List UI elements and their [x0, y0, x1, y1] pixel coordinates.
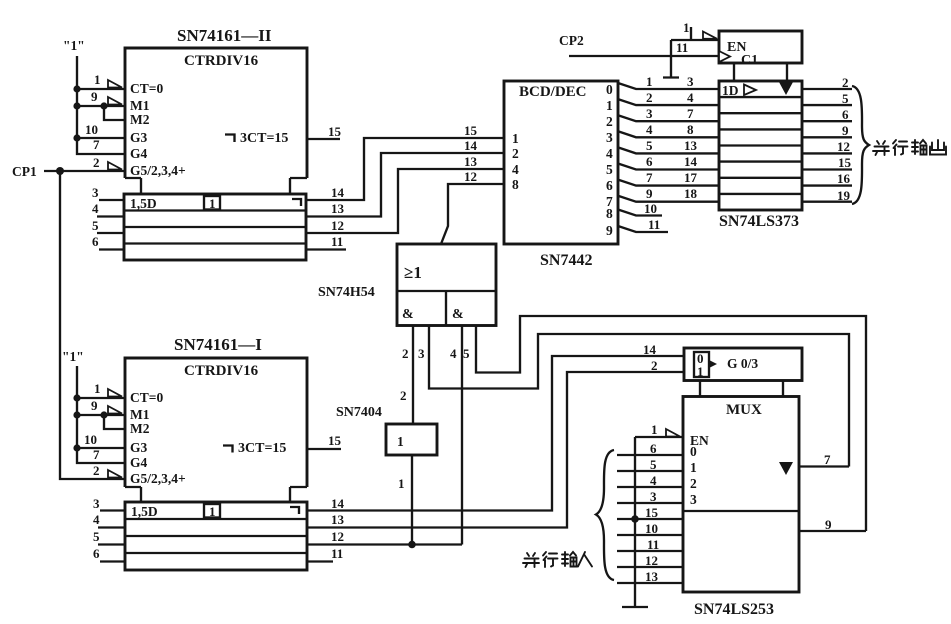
svg-text:8: 8: [606, 206, 613, 221]
svg-text:0: 0: [606, 82, 613, 97]
select brace pointer: [709, 360, 717, 368]
polarity triangle CT=0 lower: [108, 389, 122, 397]
counter U6 pin labels inside: [130, 390, 186, 486]
wire decoder out7 to latch D8 (pins 9-18): [618, 186, 719, 202]
wire lower QD pin11 stub: [307, 546, 343, 562]
wire pin9 M1 stub: [77, 89, 125, 106]
clock triangle G5 top counter: [108, 162, 122, 170]
junction rail-pin1 lower: [73, 394, 80, 401]
svg-text:12: 12: [331, 218, 344, 233]
latch U4 1D label: [722, 83, 739, 98]
svg-text:5: 5: [92, 218, 99, 233]
svg-text:0: 0: [690, 444, 697, 459]
svg-text:6: 6: [92, 234, 99, 249]
label parallel input (CJK): [523, 552, 592, 567]
svg-text:2: 2: [842, 75, 849, 90]
polarity triangle M1 lower: [108, 406, 122, 414]
svg-text:SN74LS373: SN74LS373: [719, 213, 799, 230]
mux U7 SN74LS253 outline: [683, 397, 799, 593]
mux U7 name label: [694, 601, 774, 618]
wire 7404 input pin1: [398, 455, 412, 545]
latch U4 EN/C1 control block: [719, 31, 802, 81]
gate U2 name label: [318, 285, 375, 300]
svg-text:7: 7: [824, 452, 831, 467]
counter U1 pin labels inside: [130, 81, 186, 178]
wire latch Q4 pin9: [802, 123, 852, 138]
svg-text:4: 4: [93, 512, 100, 527]
junction CP1 branch: [56, 167, 64, 175]
latch U4 name label: [719, 213, 799, 230]
svg-text:CT=0: CT=0: [130, 81, 163, 96]
wire D-input pin3 stub: [92, 185, 124, 200]
wire QC pin12 to 7442 input 4: [306, 154, 504, 233]
svg-text:8: 8: [512, 177, 519, 192]
mux U7 EN label: [690, 433, 709, 448]
svg-text:5: 5: [650, 457, 657, 472]
svg-text:8: 8: [687, 122, 694, 137]
wire decoder out3 to latch D4 (pins 4-8): [618, 122, 719, 137]
wire pin7 G4 number lower: [93, 447, 100, 462]
svg-text:6: 6: [646, 154, 653, 169]
clock wedge C1: [719, 51, 730, 62]
svg-text:2: 2: [93, 463, 100, 478]
wire latch pin11 enable segment: [671, 40, 719, 55]
wire QA pin14 to 7442 input 1: [306, 123, 504, 200]
wire D-input pin5 stub: [92, 218, 124, 233]
wire lower QC pin12 row: [307, 529, 462, 545]
wire CP1 drop to lower counter clock: [60, 171, 125, 479]
wire latch pin1 stub: [683, 20, 691, 40]
svg-text:14: 14: [643, 342, 657, 357]
wire pin1 CT=0 stub: [77, 72, 125, 89]
svg-text:14: 14: [684, 154, 698, 169]
svg-text:7: 7: [687, 106, 694, 121]
svg-text:&: &: [452, 307, 464, 322]
svg-text:15: 15: [838, 155, 852, 170]
polarity triangle MUX EN: [666, 429, 680, 437]
svg-text:16: 16: [837, 171, 851, 186]
svg-text:G 0/3: G 0/3: [727, 356, 758, 371]
svg-text:1,5D: 1,5D: [130, 196, 157, 211]
svg-text:M2: M2: [130, 421, 150, 436]
junction M1/M2 lower: [100, 411, 107, 418]
wire latch Q6 pin15: [802, 155, 852, 170]
mux U7 data labels 0-3: [690, 444, 697, 507]
svg-text:G4: G4: [130, 455, 148, 470]
svg-text:1,5D: 1,5D: [131, 504, 158, 519]
svg-text:SN74LS253: SN74LS253: [694, 601, 774, 618]
svg-text:CP1: CP1: [12, 164, 37, 179]
counter U6 label CTRDIV16: [184, 363, 259, 379]
brace parallel input: [596, 450, 614, 580]
svg-text:2: 2: [93, 155, 100, 170]
svg-text:1D: 1D: [722, 83, 739, 98]
svg-text:13: 13: [331, 201, 345, 216]
svg-text:10: 10: [644, 201, 657, 216]
svg-text:SN74161—II: SN74161—II: [177, 26, 272, 45]
wire decoder out1 to latch D2 (pins 2-4): [618, 90, 719, 105]
wire decoder out5 to latch D6 (pins 6-14): [618, 154, 719, 170]
wire lower QA pin14 to MUX select B: [307, 342, 684, 511]
wire decoder out8 stub pin10: [618, 201, 662, 216]
svg-text:CT=0: CT=0: [130, 390, 163, 405]
inverter U5 label 1: [397, 434, 404, 449]
wire MUX enable pin15: [617, 505, 683, 520]
node CP2 input: [559, 33, 719, 56]
wire M2 tie from M1 lower: [104, 415, 125, 429]
node CP1 input: [12, 155, 125, 179]
svg-text:11: 11: [331, 546, 343, 561]
wire latch Q2 pin5: [802, 91, 852, 106]
svg-text:4: 4: [687, 90, 694, 105]
decoder U3 output labels 0-9: [606, 82, 613, 238]
svg-text:9: 9: [646, 186, 653, 201]
svg-text:MUX: MUX: [726, 402, 762, 418]
register U1 label 1,5D: [130, 196, 157, 211]
svg-text:11: 11: [647, 537, 659, 552]
wire D-input pin6 stub: [92, 234, 124, 250]
svg-text:18: 18: [684, 186, 698, 201]
svg-text:1: 1: [94, 381, 101, 396]
svg-text:M1: M1: [130, 407, 150, 422]
svg-text:5: 5: [463, 346, 470, 361]
svg-text:13: 13: [464, 154, 478, 169]
decoder U3 input weight labels: [512, 131, 519, 192]
counter U6 SN74161-I title: [174, 335, 262, 354]
svg-text:1: 1: [94, 72, 101, 87]
svg-text:12: 12: [837, 139, 850, 154]
wire H54 pin2 from 7404 output: [400, 326, 413, 425]
svg-text:19: 19: [837, 188, 851, 203]
wire latch Q3 pin6: [802, 107, 852, 122]
wire MUX input pin11: [617, 537, 683, 552]
decoder U3 name label: [540, 252, 592, 269]
svg-text:2: 2: [646, 90, 653, 105]
svg-text:10: 10: [645, 521, 658, 536]
svg-text:5: 5: [93, 529, 100, 544]
svg-text:10: 10: [85, 122, 98, 137]
svg-text:SN74H54: SN74H54: [318, 285, 375, 300]
decoder U3 SN7442 outline: [504, 81, 618, 244]
polarity triangle 1D: [744, 85, 756, 96]
svg-text:3: 3: [650, 489, 657, 504]
svg-text:6: 6: [650, 441, 657, 456]
svg-text:G3: G3: [130, 440, 148, 455]
svg-text:BCD/DEC: BCD/DEC: [519, 84, 587, 100]
wire MUX input pin5: [617, 457, 683, 472]
counter U1 SN74161-II body outline: [125, 48, 307, 194]
svg-text:13: 13: [684, 138, 698, 153]
node "1" rail (bottom counter logic-1 tie): [62, 349, 125, 463]
wire D-input pin3 stub lower: [93, 496, 125, 511]
wire QB pin13 to 7442 input 2: [306, 138, 504, 217]
svg-text:5: 5: [646, 138, 653, 153]
svg-text:3: 3: [418, 346, 425, 361]
svg-text:6: 6: [606, 178, 613, 193]
mux U7 select inner box: [694, 351, 709, 379]
polarity triangle latch OE: [703, 32, 717, 39]
wire latch Q5 pin12: [802, 139, 852, 154]
svg-text:2: 2: [402, 346, 409, 361]
svg-text:G5/2,3,4+: G5/2,3,4+: [130, 163, 186, 178]
inverter U5 name label: [336, 405, 382, 420]
svg-text:1: 1: [209, 504, 216, 519]
brace parallel output: [852, 86, 869, 204]
svg-text:9: 9: [842, 123, 849, 138]
svg-text:4: 4: [450, 346, 457, 361]
svg-text:1: 1: [209, 196, 216, 211]
svg-text:15: 15: [645, 505, 659, 520]
label parallel output (CJK): [873, 140, 946, 155]
svg-text:13: 13: [645, 569, 659, 584]
svg-text:4: 4: [92, 201, 99, 216]
wire MUX input pin3: [617, 489, 683, 504]
wire MUX input pin10: [617, 521, 683, 536]
svg-text:CTRDIV16: CTRDIV16: [184, 53, 259, 69]
register U6 mode box [1]: [204, 504, 220, 519]
svg-text:3CT=15: 3CT=15: [238, 441, 286, 456]
counter U1 SN74161-II title: [177, 26, 272, 45]
svg-text:3: 3: [646, 106, 653, 121]
output triangle MUX: [779, 462, 793, 475]
svg-text:6: 6: [93, 546, 100, 561]
svg-text:G3: G3: [130, 130, 148, 145]
svg-text:9: 9: [606, 223, 613, 238]
svg-text:7: 7: [93, 137, 100, 152]
svg-text:G5/2,3,4+: G5/2,3,4+: [130, 471, 186, 486]
svg-text:4: 4: [512, 162, 519, 177]
svg-text:SN7404: SN7404: [336, 405, 382, 420]
svg-text:5: 5: [842, 91, 849, 106]
svg-text:CTRDIV16: CTRDIV16: [184, 363, 259, 379]
wire decoder out6 to latch D7 (pins 7-17): [618, 170, 719, 186]
wire D-input pin4 stub: [92, 201, 124, 217]
inverter U5 SN7404 outline: [386, 424, 437, 455]
svg-text:2: 2: [651, 358, 658, 373]
wire lower QB pin13 to MUX select A: [307, 358, 684, 528]
svg-text:7: 7: [93, 447, 100, 462]
svg-text:1: 1: [651, 422, 658, 437]
svg-text:SN7442: SN7442: [540, 252, 592, 269]
polarity triangle CT=0: [108, 80, 122, 88]
wire QD pin11 stub: [306, 234, 346, 250]
wire D-input pin4 stub lower: [93, 512, 125, 528]
wire latch Q7 pin16: [802, 171, 852, 186]
mux U7 MUX label: [726, 402, 762, 418]
svg-text:2: 2: [606, 114, 613, 129]
counter U6 pin15 output stub: [307, 433, 342, 449]
junction rail-pin9: [73, 102, 80, 109]
svg-text:9: 9: [825, 517, 832, 532]
svg-text:9: 9: [91, 398, 98, 413]
wire MUX input pin4: [617, 473, 683, 488]
clock triangle G5 bottom counter: [108, 470, 122, 478]
svg-text:3: 3: [606, 130, 613, 145]
node "1" rail (top counter logic-1 tie): [63, 38, 125, 154]
svg-text:1: 1: [683, 20, 690, 35]
mux U7 select block G0/3: [684, 348, 802, 397]
register U6 polarity mark: [290, 507, 299, 514]
junction M1/M2: [100, 102, 107, 109]
wire MUX output pin7: [799, 452, 849, 467]
latch U4 C1 label: [741, 53, 758, 68]
wire pin9 M1 stub lower: [77, 398, 125, 415]
wire decoder out0 to latch D1 (pins 1-3): [618, 74, 719, 89]
svg-text:1: 1: [398, 476, 405, 491]
svg-text:4: 4: [650, 473, 657, 488]
wire H54 pin4 from lower QC row: [450, 326, 462, 545]
ground rail MUX enables: [622, 437, 648, 607]
gate U2 SN74H54 outline: [397, 244, 496, 326]
output triangle latch: [779, 82, 793, 95]
svg-text:15: 15: [328, 433, 342, 448]
svg-text:6: 6: [842, 107, 849, 122]
wire MUX input pin6: [617, 441, 683, 456]
wire pin7 G4 number: [93, 137, 100, 152]
counter U6 SN74161-I body outline: [125, 358, 307, 502]
svg-text:9: 9: [91, 89, 98, 104]
svg-text:C1: C1: [741, 53, 758, 68]
register U1 polarity mark: [292, 199, 301, 206]
svg-text:1: 1: [397, 434, 404, 449]
latch U4 SN74LS373 outline: [719, 81, 802, 210]
wire MUX input pin12: [617, 553, 683, 568]
svg-text:3: 3: [93, 496, 100, 511]
wire pin1 CT=0 stub lower: [77, 381, 125, 398]
svg-text:10: 10: [84, 432, 97, 447]
svg-text:M2: M2: [130, 112, 150, 127]
wire MUX EN pin1: [635, 422, 683, 437]
svg-text:SN74161—I: SN74161—I: [174, 335, 262, 354]
wire latch Q8 pin19: [802, 188, 852, 203]
svg-text:3: 3: [690, 492, 697, 507]
svg-text:5: 5: [606, 162, 613, 177]
wire decoder out4 to latch D5 (pins 5-13): [618, 138, 719, 153]
junction rail-pin9 lower: [73, 411, 80, 418]
junction rail-pin1: [73, 85, 80, 92]
svg-text:3: 3: [92, 185, 99, 200]
svg-text:14: 14: [331, 185, 345, 200]
counter U6 3CT=15 output label: [223, 441, 286, 456]
wire M2 tie from M1: [104, 106, 125, 120]
polarity triangle M1: [108, 97, 122, 105]
svg-text:CP2: CP2: [559, 33, 584, 48]
gate U2 AND label left: [402, 307, 414, 322]
counter U1 3CT=15 output label: [225, 131, 288, 146]
svg-text:1: 1: [512, 131, 519, 146]
register U1 mode box [1]: [204, 196, 220, 211]
junction 7404 input on QC row: [408, 541, 416, 549]
mux U7 G 0/3 label: [727, 356, 758, 371]
junction rail pin15: [631, 515, 639, 523]
svg-text:"1": "1": [62, 349, 84, 364]
wire pin10 G3 stub: [77, 122, 125, 138]
svg-text:15: 15: [464, 123, 478, 138]
decoder U3 label BCD/DEC: [519, 84, 587, 100]
svg-text:"1": "1": [63, 38, 85, 53]
svg-text:1: 1: [646, 74, 653, 89]
svg-text:11: 11: [331, 234, 343, 249]
svg-text:11: 11: [676, 40, 688, 55]
svg-text:14: 14: [464, 138, 478, 153]
wire MUX input pin13: [617, 569, 683, 584]
counter U1 pin15 output stub: [307, 124, 342, 139]
svg-text:&: &: [402, 307, 414, 322]
svg-text:2: 2: [690, 476, 697, 491]
svg-text:4: 4: [646, 122, 653, 137]
register U6 label 1,5D: [131, 504, 158, 519]
gate U2 OR label: [404, 263, 422, 282]
svg-text:12: 12: [331, 529, 344, 544]
register U6 array outline: [125, 502, 307, 570]
svg-text:1: 1: [606, 98, 613, 113]
latch U4 EN label: [727, 40, 746, 55]
wire AOI output to 7442 input 8: [441, 169, 504, 244]
svg-text:≥1: ≥1: [404, 263, 422, 282]
svg-text:7: 7: [646, 170, 653, 185]
wire latch Q1 pin2: [802, 75, 852, 90]
svg-text:1: 1: [697, 364, 704, 379]
wire terminator bar below pin11: [663, 40, 679, 78]
register U1 array outline: [124, 194, 306, 260]
svg-text:3: 3: [687, 74, 694, 89]
svg-text:2: 2: [400, 388, 407, 403]
svg-text:17: 17: [684, 170, 698, 185]
svg-text:2: 2: [512, 146, 519, 161]
svg-text:15: 15: [328, 124, 342, 139]
svg-text:G4: G4: [130, 146, 148, 161]
gate U2 AND label right: [452, 307, 464, 322]
svg-text:4: 4: [606, 146, 613, 161]
svg-text:1: 1: [690, 460, 697, 475]
svg-text:14: 14: [331, 496, 345, 511]
svg-text:12: 12: [645, 553, 658, 568]
svg-text:11: 11: [648, 217, 660, 232]
junction rail-pin10 lower: [73, 444, 80, 451]
junction rail-pin10: [73, 134, 80, 141]
wire decoder out9 stub pin11: [618, 217, 668, 232]
wire D-input pin5 stub lower: [93, 529, 125, 545]
wire pin10 G3 stub lower: [77, 432, 125, 448]
svg-text:12: 12: [464, 169, 477, 184]
wire MUX output pin9: [799, 517, 866, 532]
wire pin2 G5 number lower: [93, 463, 100, 478]
svg-text:3CT=15: 3CT=15: [240, 131, 288, 146]
wire H54 pin3 from MUX output 7: [418, 326, 849, 467]
wire decoder out2 to latch D3 (pins 3-7): [618, 106, 719, 121]
wire D-input pin6 stub lower: [93, 546, 125, 562]
counter U1 label CTRDIV16: [184, 53, 259, 69]
wire H54 pin5 from MUX output 9: [463, 316, 866, 531]
svg-text:13: 13: [331, 512, 345, 527]
svg-text:M1: M1: [130, 98, 150, 113]
